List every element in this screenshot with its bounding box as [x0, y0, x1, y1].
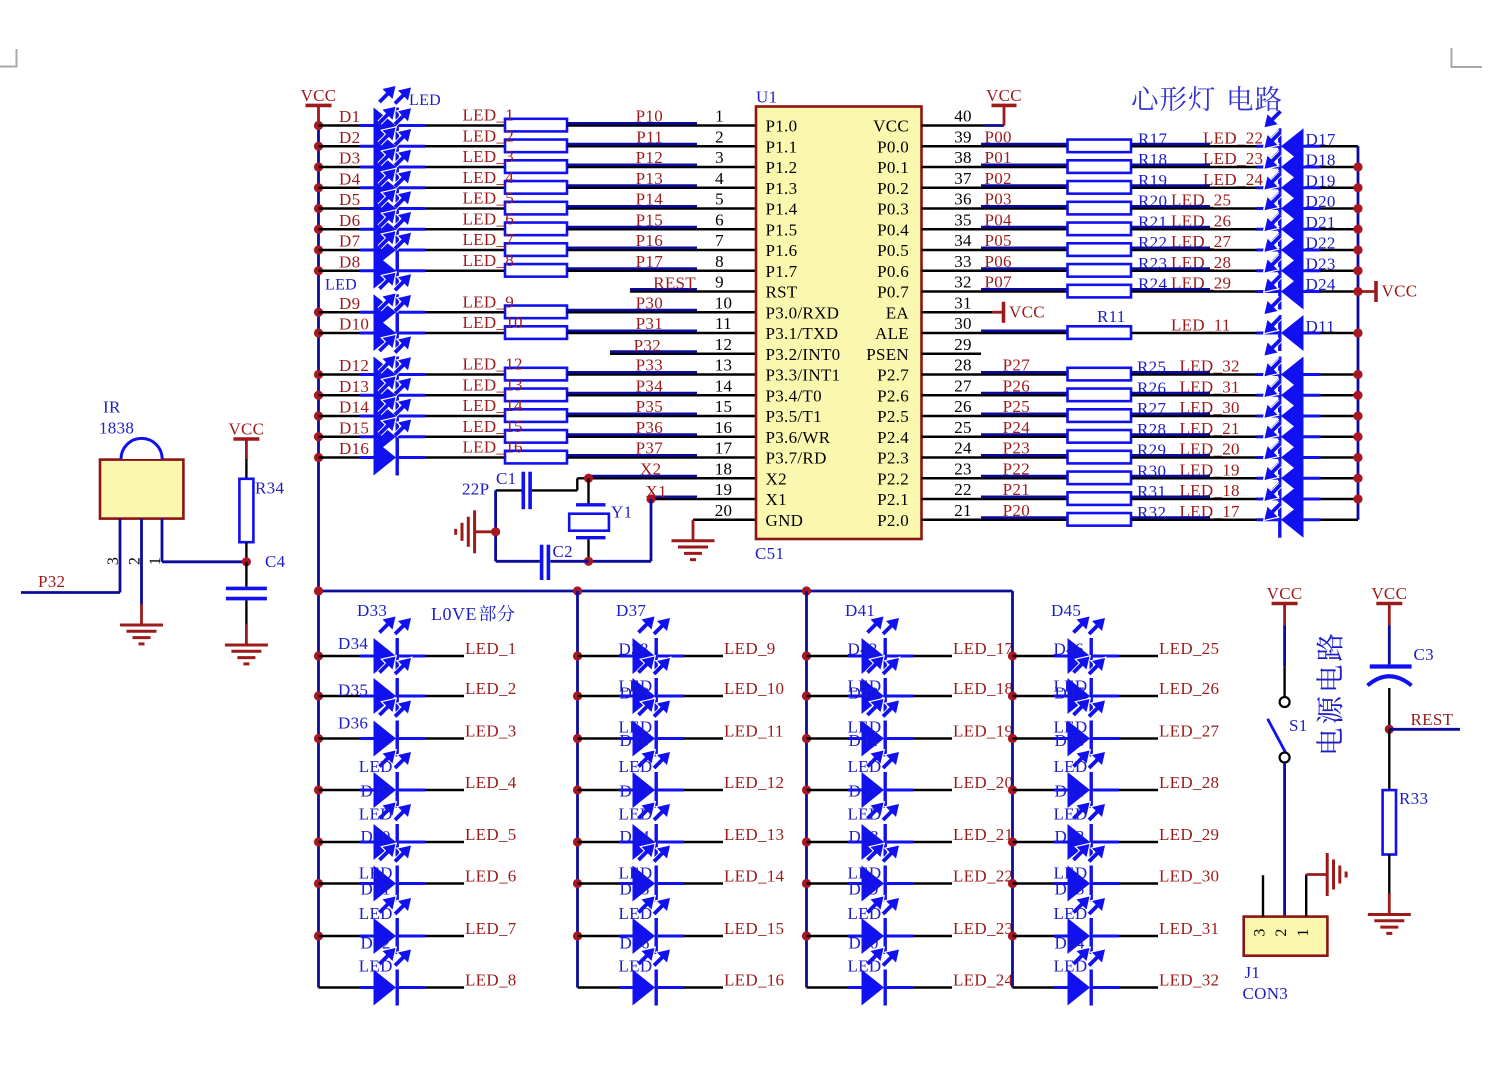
svg-text:D39: D39: [620, 684, 650, 703]
svg-text:D1: D1: [339, 107, 360, 126]
svg-text:C51: C51: [755, 544, 784, 563]
svg-text:9: 9: [715, 273, 724, 292]
wire R19 to LED D19: [1131, 187, 1257, 189]
svg-text:30: 30: [954, 314, 972, 333]
svg-text:LED_5: LED_5: [465, 825, 517, 844]
junction right bus row 9: [1353, 287, 1362, 296]
svg-text:P2.6: P2.6: [877, 386, 909, 405]
wire LED cathode col3 row5: [913, 841, 952, 843]
svg-text:D5: D5: [339, 190, 360, 209]
svg-text:R33: R33: [1399, 789, 1428, 808]
junction X2 node: [584, 474, 593, 483]
svg-text:37: 37: [954, 169, 972, 188]
junction col4 row1: [1008, 651, 1017, 660]
svg-text:LED: LED: [848, 957, 882, 976]
svg-text:LED_12: LED_12: [463, 355, 523, 374]
wire LED D anode col3 row7: [807, 935, 862, 937]
IR receiver 1838 body: [100, 460, 183, 519]
wire Y1 to bottom node: [587, 539, 589, 561]
wire net P12: [567, 166, 756, 168]
svg-text:P10: P10: [636, 107, 663, 126]
svg-text:D2: D2: [339, 128, 360, 147]
wire LED D34 anode col1 row2: [319, 695, 374, 697]
wire D10 cathode to resistor: [425, 332, 505, 334]
wire LED cathode col2 row1: [684, 655, 723, 657]
svg-text:D60: D60: [849, 934, 879, 953]
wire LED D anode col4 row8: [1013, 986, 1068, 988]
svg-text:D51: D51: [361, 880, 391, 899]
svg-text:J1: J1: [1245, 963, 1261, 982]
svg-text:P31: P31: [636, 314, 663, 333]
junction left bus row 4: [314, 183, 323, 192]
svg-text:28: 28: [954, 356, 972, 375]
LED D16: [360, 456, 374, 459]
wire LED cathode col3 row8: [913, 986, 952, 988]
LED D7: [360, 249, 374, 252]
resistor R18: [1068, 160, 1132, 173]
wire net P30: [567, 311, 756, 313]
wire net P15: [567, 228, 756, 230]
svg-text:LED_10: LED_10: [463, 313, 523, 332]
svg-text:D34: D34: [338, 634, 368, 653]
ground at J1 pin 1: [1306, 873, 1327, 876]
svg-text:36: 36: [954, 190, 972, 209]
wire C4 to ground: [245, 600, 247, 625]
LED D20: [1281, 191, 1304, 227]
resistor R20: [1068, 202, 1132, 215]
wire node to C4: [245, 562, 247, 587]
wire pin 29 PSEN stub: [922, 353, 982, 355]
LED (row LED_17): [1281, 502, 1304, 538]
svg-text:LED_15: LED_15: [724, 919, 784, 938]
wire LED cathode col4 row3: [1119, 737, 1158, 739]
wire LED D anode col4 row6: [1013, 882, 1068, 884]
junction right bus row 17: [1353, 453, 1362, 462]
junction top bus / col2: [573, 586, 582, 595]
svg-text:D38: D38: [619, 640, 649, 659]
wire pin 30 ALE to R11: [922, 332, 1068, 334]
resistor (net LED_15): [505, 430, 567, 443]
svg-text:P32: P32: [634, 336, 661, 355]
resistor R30: [1068, 472, 1132, 485]
svg-text:D41: D41: [845, 601, 875, 620]
svg-text:D3: D3: [339, 149, 360, 168]
wire GND pin 20: [693, 519, 756, 521]
LED col4 row5: [1054, 841, 1068, 844]
LED D4: [360, 186, 374, 189]
svg-text:LED_14: LED_14: [724, 867, 785, 886]
svg-text:P11: P11: [636, 127, 663, 146]
LED col4 row4: [1054, 789, 1068, 792]
wire D5 anode: [319, 207, 374, 209]
junction right bus row 5: [1353, 204, 1362, 213]
svg-text:LED_16: LED_16: [463, 438, 523, 457]
capacitor C3 (polarized): [1370, 664, 1412, 668]
svg-text:1: 1: [715, 107, 724, 126]
LED col2 row4: [619, 789, 633, 792]
wire LED D35 anode col1 row3: [319, 737, 374, 739]
svg-text:D4: D4: [339, 169, 361, 188]
svg-text:D36: D36: [338, 714, 368, 733]
svg-text:LED_31: LED_31: [1159, 919, 1219, 938]
wire D23 anode to bus: [1321, 270, 1359, 272]
wire LED D45 anode col4 row1: [1013, 655, 1068, 657]
wire LED D anode col3 row4: [807, 789, 862, 791]
svg-text:D53: D53: [620, 782, 650, 801]
junction right bus row 15: [1353, 411, 1362, 420]
LED D14: [360, 415, 374, 418]
svg-text:LED_20: LED_20: [953, 773, 1013, 792]
svg-text:D42: D42: [848, 640, 878, 659]
wire LED D anode col1 row5: [319, 841, 374, 843]
svg-text:REST: REST: [653, 274, 696, 293]
svg-text:R34: R34: [255, 479, 284, 498]
svg-text:P2.4: P2.4: [877, 428, 909, 447]
svg-text:P14: P14: [636, 190, 664, 209]
LED col1 row5: [360, 841, 374, 844]
wire VCC to R34: [245, 459, 247, 479]
LED D15: [360, 435, 374, 438]
wire LED cathode col2 row6: [684, 882, 723, 884]
svg-text:6: 6: [715, 210, 724, 229]
wire net P37: [567, 456, 756, 458]
resistor R23: [1068, 264, 1132, 277]
svg-text:D6: D6: [339, 211, 360, 230]
svg-text:32: 32: [954, 273, 972, 292]
svg-text:LED_3: LED_3: [465, 722, 517, 741]
svg-text:P36: P36: [636, 418, 663, 437]
svg-text:LED_10: LED_10: [724, 679, 784, 698]
resistor (net LED_9): [505, 306, 567, 319]
svg-text:18: 18: [715, 459, 733, 478]
svg-text:LED: LED: [359, 957, 393, 976]
svg-text:LED_8: LED_8: [463, 251, 515, 270]
svg-text:LED_18: LED_18: [953, 679, 1013, 698]
svg-text:38: 38: [954, 148, 972, 167]
svg-text:LED_7: LED_7: [465, 919, 517, 938]
resistor (net LED_14): [505, 409, 567, 422]
junction left bus row 13: [314, 370, 323, 379]
resistor (net LED_6): [505, 223, 567, 236]
wire D14 anode: [319, 415, 374, 417]
wire R18 to LED D18: [1131, 166, 1257, 168]
wire D15 cathode to resistor: [425, 436, 505, 438]
svg-text:P12: P12: [636, 148, 663, 167]
svg-text:P2.1: P2.1: [877, 490, 909, 509]
wire VCC to C3: [1388, 626, 1391, 665]
LED D3: [360, 166, 374, 169]
ground left of crystal loop: [475, 530, 496, 533]
wire LED cathode col1 row7: [425, 935, 464, 937]
svg-text:LED_2: LED_2: [463, 126, 515, 145]
svg-text:IR: IR: [103, 398, 121, 417]
wire D19 anode to bus: [1321, 187, 1359, 189]
svg-text:LED: LED: [848, 757, 882, 776]
wire C2 right to node: [550, 560, 588, 563]
svg-text:VCC: VCC: [873, 117, 909, 136]
svg-text:X2: X2: [640, 459, 661, 478]
svg-text:D45: D45: [1051, 601, 1081, 620]
ground at IR pin 2: [140, 604, 143, 625]
svg-text:D8: D8: [339, 252, 360, 271]
capacitor C2: [540, 545, 544, 580]
wire D1 anode: [319, 124, 374, 126]
wire D17 anode to bus: [1321, 145, 1359, 147]
svg-text:P1.0: P1.0: [766, 117, 798, 136]
wire loop left vertical: [494, 490, 497, 561]
svg-text:29: 29: [954, 335, 972, 354]
svg-text:34: 34: [954, 231, 972, 250]
svg-text:P1.5: P1.5: [766, 220, 798, 239]
svg-text:1: 1: [1295, 928, 1312, 936]
junction col4 row6: [1008, 879, 1017, 888]
junction left bus row 3: [314, 162, 323, 171]
svg-text:LED: LED: [1054, 757, 1088, 776]
svg-text:LED_21: LED_21: [953, 825, 1013, 844]
LED (row LED_31): [1281, 377, 1304, 413]
wire R20 to LED D20: [1131, 207, 1257, 209]
LED D22: [1281, 232, 1304, 268]
svg-text:LED: LED: [1054, 957, 1088, 976]
svg-text:D63: D63: [1055, 880, 1085, 899]
svg-text:D40: D40: [620, 731, 650, 750]
wire LED cathode col2 row5: [684, 841, 723, 843]
svg-text:LED_14: LED_14: [463, 396, 524, 415]
svg-text:LED_27: LED_27: [1159, 722, 1220, 741]
LED D10: [360, 332, 374, 335]
svg-text:D59: D59: [849, 880, 879, 899]
LED (row LED_18): [1281, 481, 1304, 517]
junction col2 row1: [573, 651, 582, 660]
wire C1 right to X2 node: [532, 489, 578, 491]
junction col3 row5: [802, 837, 811, 846]
wire left VCC bus vertical: [317, 124, 320, 988]
junction left bus row 6: [314, 225, 323, 234]
wire LED cathode col2 row7: [684, 935, 723, 937]
LED D11: [1281, 315, 1304, 351]
wire LED D anode col1 row4: [319, 789, 374, 791]
wire D6 cathode to resistor: [425, 228, 505, 230]
svg-text:P0.5: P0.5: [877, 241, 909, 260]
svg-text:1: 1: [147, 557, 164, 565]
resistor (net LED_1): [505, 119, 567, 132]
svg-text:D52: D52: [361, 934, 391, 953]
junction col3 row3: [802, 734, 811, 743]
svg-text:D35: D35: [338, 681, 368, 700]
junction col4 row2: [1008, 691, 1017, 700]
wire net P36: [567, 436, 756, 438]
IR pin 1 lead: [161, 519, 164, 562]
svg-text:2: 2: [715, 127, 724, 146]
svg-text:LED_29: LED_29: [1159, 825, 1219, 844]
wire D22 anode to bus: [1321, 249, 1359, 251]
svg-text:2: 2: [127, 557, 144, 565]
svg-text:C3: C3: [1414, 645, 1434, 664]
svg-text:D13: D13: [339, 377, 369, 396]
wire net P25: [922, 415, 1068, 417]
resistor R21: [1068, 223, 1132, 236]
wire D6 anode: [319, 228, 374, 230]
junction col1 row2: [314, 691, 323, 700]
LED col3 row4: [848, 789, 862, 792]
wire net P10: [567, 124, 756, 126]
resistor (net LED_10): [505, 326, 567, 339]
svg-text:D46: D46: [1054, 640, 1084, 659]
svg-text:D37: D37: [616, 601, 646, 620]
wire D8 anode: [319, 270, 374, 272]
svg-text:P1.7: P1.7: [766, 262, 798, 281]
title 心形灯 电路: [1132, 86, 1157, 110]
junction left bus row 1: [314, 121, 323, 130]
wire net P20: [922, 519, 1068, 521]
wire LED cathode col1 row2: [425, 695, 464, 697]
wire REST node to R33: [1388, 729, 1390, 790]
LED col1 row6: [360, 882, 374, 885]
svg-text:LED_9: LED_9: [463, 292, 515, 311]
wire R30 to LED: [1131, 477, 1257, 479]
svg-text:P0.2: P0.2: [877, 179, 909, 198]
LED D13: [360, 394, 374, 397]
LED D2: [360, 145, 374, 148]
svg-text:LED_6: LED_6: [463, 209, 515, 228]
LED col3 row7: [848, 935, 862, 938]
crystal Y1: [576, 503, 606, 506]
wire LED cathode col1 row1: [425, 655, 464, 657]
svg-text:LED_22: LED_22: [1203, 128, 1263, 147]
junction col1 row5: [314, 837, 323, 846]
svg-text:LED: LED: [848, 904, 882, 923]
junction col4 row4: [1008, 785, 1017, 794]
junction right bus row 4: [1353, 183, 1362, 192]
LED col1 row2: [360, 695, 374, 698]
resistor R22: [1068, 243, 1132, 256]
wire R24 to LED D24: [1131, 290, 1257, 292]
wire net P32 to IR: [21, 591, 120, 594]
wire LED cathode col4 row7: [1119, 935, 1158, 937]
svg-text:24: 24: [954, 439, 972, 458]
wire D10 anode: [319, 332, 374, 334]
LED col1 row8: [360, 986, 374, 989]
wire LED D anode col3 row8: [807, 986, 862, 988]
resistor (net LED_8): [505, 264, 567, 277]
resistor R24: [1068, 285, 1132, 298]
wire LED cathode col2 row4: [684, 789, 723, 791]
svg-text:LED_4: LED_4: [463, 168, 515, 187]
wire C3 to REST node: [1388, 688, 1390, 729]
wire LED D38 anode col2 row2: [578, 695, 633, 697]
resistor R27: [1068, 409, 1132, 422]
junction right bus row 3: [1353, 162, 1362, 171]
svg-text:D12: D12: [339, 356, 369, 375]
svg-text:LED_2: LED_2: [465, 679, 517, 698]
wire LED D41 anode col3 row1: [807, 655, 862, 657]
LED col4 row1: [1054, 655, 1068, 658]
wire LED cathode col4 row1: [1119, 655, 1158, 657]
LED D18: [1281, 149, 1304, 185]
junction REST node: [1385, 725, 1394, 734]
svg-text:LED_15: LED_15: [463, 417, 523, 436]
wire LED D anode col3 row6: [807, 882, 862, 884]
LED col1 row1: [360, 655, 374, 658]
svg-text:P3.0/RXD: P3.0/RXD: [766, 303, 840, 322]
svg-text:10: 10: [715, 293, 733, 312]
svg-text:U1: U1: [756, 88, 777, 107]
junction R34/C4 node: [242, 557, 251, 566]
svg-text:LED: LED: [359, 805, 393, 824]
junction top bus / left bus: [314, 586, 323, 595]
LED col4 row2: [1054, 695, 1068, 698]
svg-text:8: 8: [715, 252, 724, 271]
svg-text:C1: C1: [496, 469, 516, 488]
LED col1 row3: [360, 737, 374, 740]
wire LOVE top bus: [319, 590, 1013, 593]
svg-text:19: 19: [715, 480, 733, 499]
wire LED cathode col2 row2: [684, 695, 723, 697]
resistor R28: [1068, 430, 1132, 443]
power symbol VCC right bus tap: [1358, 290, 1375, 293]
svg-text:P37: P37: [636, 439, 664, 458]
junction left bus row 11: [314, 328, 323, 337]
svg-text:CON3: CON3: [1243, 984, 1289, 1003]
junction right bus row 14: [1353, 391, 1362, 400]
svg-text:22: 22: [954, 480, 972, 499]
wire LED cathode col4 row4: [1119, 789, 1158, 791]
junction left bus row 8: [314, 266, 323, 275]
wire LED D anode col2 row5: [578, 841, 633, 843]
wire IR pin1 to C4 node: [162, 560, 246, 563]
junction col4 row7: [1008, 931, 1017, 940]
J1 pin 3 lead: [1262, 875, 1264, 916]
wire D12 cathode to resistor: [425, 373, 505, 375]
junction col2 row6: [573, 879, 582, 888]
svg-text:5: 5: [715, 190, 724, 209]
svg-text:P1.2: P1.2: [766, 158, 798, 177]
LED col3 row3: [848, 737, 862, 740]
svg-text:P1.6: P1.6: [766, 241, 798, 260]
svg-text:P0.4: P0.4: [877, 220, 909, 239]
wire D16 cathode to resistor: [425, 456, 505, 458]
svg-text:VCC: VCC: [1267, 584, 1303, 603]
svg-text:D43: D43: [849, 684, 879, 703]
svg-text:D48: D48: [1055, 731, 1085, 750]
resistor (net LED_7): [505, 243, 567, 256]
junction left bus row 2: [314, 142, 323, 151]
svg-text:GND: GND: [766, 511, 804, 530]
junction col3 row4: [802, 785, 811, 794]
svg-text:REST: REST: [1411, 710, 1454, 729]
wire LED D anode col1 row7: [319, 935, 374, 937]
svg-text:P0.3: P0.3: [877, 200, 909, 219]
wire LED cathode col3 row1: [913, 655, 952, 657]
svg-text:25: 25: [954, 418, 972, 437]
svg-text:D55: D55: [620, 880, 650, 899]
junction right bus row 11: [1353, 328, 1362, 337]
svg-text:LED_8: LED_8: [465, 971, 517, 990]
svg-text:VCC: VCC: [1371, 584, 1407, 603]
resistor R25: [1068, 368, 1132, 381]
LED (row LED_19): [1281, 460, 1304, 496]
svg-text:LED_13: LED_13: [463, 375, 523, 394]
wire LED anode to bus (row LED_19): [1321, 477, 1359, 479]
wire net P24: [922, 436, 1068, 438]
LED col4 row8: [1054, 986, 1068, 989]
junction col1 row3: [314, 734, 323, 743]
svg-text:12: 12: [715, 335, 733, 354]
svg-text:P3.5/T1: P3.5/T1: [766, 407, 822, 426]
wire D2 cathode to resistor: [425, 145, 505, 147]
wire net P00: [922, 145, 1068, 147]
svg-text:P2.5: P2.5: [877, 407, 909, 426]
